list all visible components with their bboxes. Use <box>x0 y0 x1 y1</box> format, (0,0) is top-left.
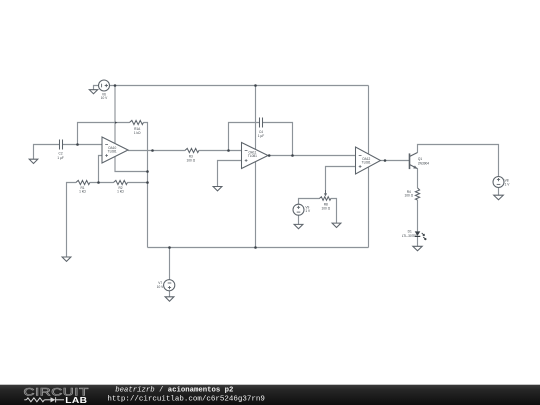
svg-text:TL081: TL081 <box>362 161 371 165</box>
voltage source V8 <box>493 177 504 188</box>
svg-text:D1: D1 <box>408 230 412 234</box>
svg-text:1 µF: 1 µF <box>258 134 264 138</box>
op-amp U1 OA10 <box>102 137 128 163</box>
ground for LED <box>413 246 422 251</box>
voltage source V6 <box>99 80 110 91</box>
svg-text:10 V: 10 V <box>157 285 164 289</box>
node V+ tick on feedback row <box>115 122 117 124</box>
node C4-output junction <box>291 154 294 157</box>
svg-text:100 Ω: 100 Ω <box>322 207 331 211</box>
wire C2 left lead to ground <box>34 145 60 160</box>
wire OA11 V- down to bus <box>255 162 257 248</box>
node OA12 output joint dot <box>384 159 387 162</box>
svg-text:C2: C2 <box>59 151 63 155</box>
resistor R1A <box>130 120 144 124</box>
wire OA12 V+ drop <box>368 86 370 154</box>
svg-text:10 V: 10 V <box>101 96 108 100</box>
svg-text:1 kΩ: 1 kΩ <box>79 190 86 194</box>
wire pot right to ground <box>331 199 337 223</box>
wire C2 right lead to OA10 minus input <box>63 144 103 146</box>
capacitor C2 plates <box>60 140 63 150</box>
wire R1 left lead and ground drop <box>67 183 76 257</box>
wire OA12 output to base <box>381 160 410 162</box>
wire OA12 plus-input to pot wiper <box>326 167 356 191</box>
logo schematic wire with resistor and diode <box>24 397 64 402</box>
resistor R3 <box>185 148 199 152</box>
footer bar <box>0 385 540 405</box>
ground for OA11 plus input <box>213 187 222 191</box>
op-amp U3 OA12 <box>356 147 381 174</box>
node R2 column junction <box>146 181 149 184</box>
wire R1 to R2 <box>90 182 114 184</box>
wire emitter down to R4 <box>417 169 419 188</box>
wire OA10 plus-input down <box>99 156 103 183</box>
node bus-V7 junction <box>168 246 171 249</box>
transistor Q1 <box>410 153 418 170</box>
svg-text:1 kΩ: 1 kΩ <box>134 131 141 135</box>
wire V6 to ground <box>94 86 99 90</box>
svg-text:TL081: TL081 <box>248 154 257 158</box>
wire bus down to V7 <box>169 248 171 280</box>
node R3-C4 junction <box>227 149 230 152</box>
node V- column junction <box>146 170 149 173</box>
voltage source V7 <box>164 280 175 291</box>
node feedback-to-input junction <box>76 143 79 146</box>
wire feedback R1A loop left <box>78 123 130 145</box>
svg-text:1 V: 1 V <box>505 182 511 186</box>
node rail-OA11 junction <box>254 84 257 87</box>
wire OA11 V+ drop <box>255 86 257 150</box>
wire OA11 plus-input to ground <box>218 161 242 187</box>
ground for R1 <box>62 257 71 261</box>
svg-text:100 Ω: 100 Ω <box>405 194 414 198</box>
wire R2 right to column <box>127 182 147 184</box>
resistor R1 <box>76 180 90 184</box>
op-amp U2 OA11 <box>242 143 269 169</box>
capacitor C4 plates <box>260 118 263 128</box>
svg-text:2N3904: 2N3904 <box>418 162 429 166</box>
potentiometer R8 <box>319 190 330 200</box>
wire C4 right down to output <box>263 123 293 156</box>
svg-text:LTL-307EE: LTL-307EE <box>402 234 418 238</box>
ground for V9 <box>294 224 303 228</box>
svg-text:http://circuitlab.com/c6r5246g: http://circuitlab.com/c6r5246g37rn9 <box>107 395 265 403</box>
node bus-OA11 junction <box>254 246 257 249</box>
svg-text:1 V: 1 V <box>305 209 311 213</box>
wire V9 to ground <box>298 215 300 224</box>
svg-text:TL081: TL081 <box>108 150 117 154</box>
svg-text:1 kΩ: 1 kΩ <box>117 190 124 194</box>
svg-text:100 Ω: 100 Ω <box>187 158 196 162</box>
wire V8 to ground <box>498 187 500 195</box>
LED D1 <box>415 231 426 239</box>
wire OA12 V- down to bus <box>368 167 370 247</box>
svg-text:Q1: Q1 <box>418 157 422 161</box>
ground for R8 <box>332 223 341 227</box>
wire collector to V8 <box>418 145 499 177</box>
ground for V6 <box>89 90 97 94</box>
svg-text:LAB: LAB <box>65 396 87 405</box>
wire C4 feedback loop left <box>229 123 260 151</box>
node OA11 output joint dot <box>268 154 271 157</box>
wire LED to ground <box>417 236 419 246</box>
node output joint dot <box>151 149 154 152</box>
wire R3 to OA11 minus input <box>199 150 242 152</box>
ground for V8 <box>494 195 504 200</box>
svg-text:1 µF: 1 µF <box>57 156 63 160</box>
svg-text:beatrizrb / acionamentos p2: beatrizrb / acionamentos p2 <box>115 386 233 394</box>
wire OA10 output row <box>128 150 185 152</box>
wire negative bus <box>148 247 369 249</box>
wire OA11 output row <box>268 155 356 157</box>
resistor R2 <box>114 180 128 184</box>
wire R4 to LED <box>417 200 419 231</box>
wire top +10V rail <box>109 85 368 87</box>
node R1-R2 plus-input junction <box>97 181 100 184</box>
node rail-OA10 junction <box>114 84 117 87</box>
wire OA10 V- down and right <box>115 157 148 172</box>
resistor R4 <box>415 188 419 200</box>
wire V7 to ground <box>169 291 171 297</box>
wire OA10 V+ drop <box>114 86 116 144</box>
wire V9 top to pot left <box>299 199 320 205</box>
ground for V7 <box>165 297 174 301</box>
voltage source V9 <box>293 204 304 215</box>
ground for C2 <box>29 159 38 163</box>
wire R1A right to output column <box>143 123 147 248</box>
